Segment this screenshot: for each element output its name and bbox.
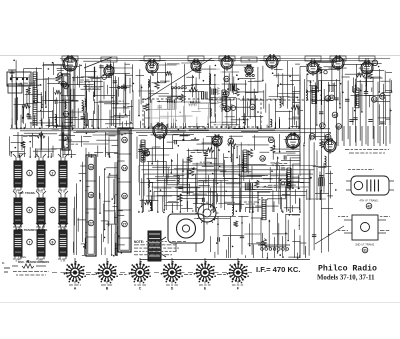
svg-text:Philco Radio: Philco Radio xyxy=(318,264,377,274)
svg-text:POL.: POL. xyxy=(38,191,44,194)
svg-text:18: 18 xyxy=(63,136,67,140)
svg-text:7: 7 xyxy=(29,240,31,244)
svg-text:39: 39 xyxy=(89,165,93,169)
svg-text:2: 2 xyxy=(52,171,54,175)
svg-text:25: 25 xyxy=(225,77,229,81)
svg-text:4: 4 xyxy=(29,208,31,212)
svg-text:14: 14 xyxy=(123,166,127,170)
svg-text:1: 1 xyxy=(29,171,31,175)
svg-text:43: 43 xyxy=(380,95,384,99)
svg-text:31: 31 xyxy=(363,248,367,252)
svg-text:4TH I.F. TRANS.: 4TH I.F. TRANS. xyxy=(359,199,379,203)
svg-text:37: 37 xyxy=(64,84,68,88)
svg-text:8: 8 xyxy=(52,240,54,244)
svg-text:42: 42 xyxy=(333,113,337,117)
svg-text:S.W.: S.W. xyxy=(60,191,65,194)
svg-text:27: 27 xyxy=(64,112,68,116)
svg-text:OSC. TRANSFORMERS: OSC. TRANSFORMERS xyxy=(18,260,49,264)
svg-text:47: 47 xyxy=(321,124,325,128)
svg-text:1 MEG.: 1 MEG. xyxy=(18,255,27,259)
svg-text:32: 32 xyxy=(123,194,127,198)
svg-text:22: 22 xyxy=(372,98,376,102)
svg-text:5: 5 xyxy=(52,208,54,212)
svg-text:DET.OSC: DET.OSC xyxy=(64,57,75,61)
svg-text:46: 46 xyxy=(269,138,273,142)
svg-text:17: 17 xyxy=(373,61,377,65)
svg-text:Models 37-10, 37-11: Models 37-10, 37-11 xyxy=(317,275,375,282)
svg-text:24: 24 xyxy=(123,138,127,142)
svg-text:27: 27 xyxy=(89,221,93,225)
svg-text:5: 5 xyxy=(230,139,232,143)
svg-text:9: 9 xyxy=(252,105,254,109)
svg-text:27: 27 xyxy=(123,222,127,226)
svg-text:42: 42 xyxy=(367,204,371,208)
svg-text:NOTE:: NOTE: xyxy=(134,240,144,244)
svg-text:I.F.= 470 KC.: I.F.= 470 KC. xyxy=(256,265,301,274)
svg-text:30: 30 xyxy=(337,125,341,129)
svg-text:26: 26 xyxy=(261,157,265,161)
svg-text:C.: C. xyxy=(2,261,5,265)
svg-text:18: 18 xyxy=(89,193,93,197)
svg-text:S.W.: S.W. xyxy=(60,260,65,263)
svg-text:2ND I.F. TRANS.: 2ND I.F. TRANS. xyxy=(355,243,375,247)
